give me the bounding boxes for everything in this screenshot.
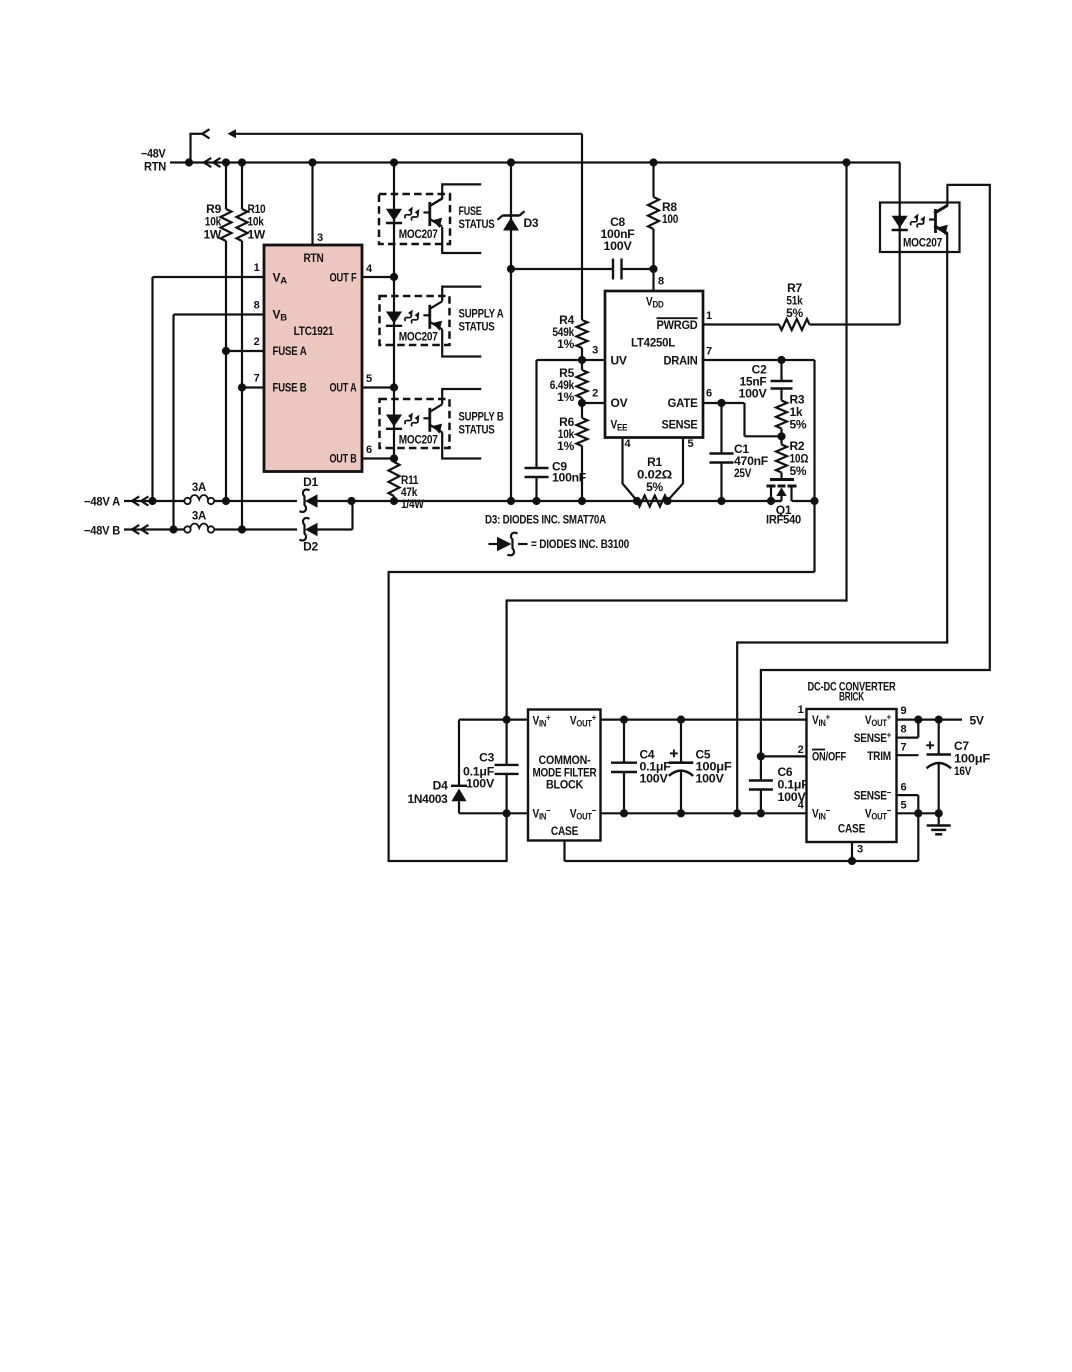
wire B joins A [318,528,353,530]
svg-text:BRICK: BRICK [839,690,864,704]
wire filter input top rail [459,718,807,720]
svg-text:1W: 1W [248,228,266,242]
svg-text:FUSE A: FUSE A [273,344,307,358]
svg-text:100: 100 [662,212,679,226]
svg-text:CASE: CASE [551,824,578,838]
svg-text:STATUS: STATUS [459,423,495,437]
opto light arrows [403,411,415,425]
svg-text:SENSE+: SENSE+ [854,730,891,745]
svg-text:GATE: GATE [668,396,698,410]
svg-text:7: 7 [706,346,712,358]
svg-text:OUT F: OUT F [330,271,357,285]
wire OV node [582,402,605,404]
IC U-LTC1921 body [264,245,362,472]
svg-text:1%: 1% [557,337,574,351]
transistor Q1 IRF540 [770,478,794,481]
capacitor C5 polarized [680,720,682,763]
opto light arrows [403,308,415,322]
fuse F2 3A [184,526,190,532]
svg-text:OV: OV [611,396,628,410]
svg-text:PWRGD: PWRGD [657,318,699,332]
svg-text:TRIM: TRIM [867,749,891,763]
opto phototransistor [428,202,431,226]
svg-text:25V: 25V [734,466,752,480]
legend diode symbol B3100 [489,543,498,545]
SUPPLY A STATUS output stubs [442,287,481,302]
svg-text:5%: 5% [790,418,807,432]
svg-text:D2: D2 [303,540,318,554]
svg-text:DRAIN: DRAIN [664,354,698,368]
sense resistor R1 [623,438,638,501]
svg-text:1%: 1% [557,390,574,404]
svg-text:5: 5 [688,438,694,450]
capacitor C6 [760,756,762,780]
FUSE STATUS output stubs [430,184,482,206]
optocoupler U5 MOC207 box [880,203,960,253]
svg-text:OUT A: OUT A [330,381,357,395]
svg-text:3: 3 [592,345,598,357]
svg-text:100nF: 100nF [552,471,586,485]
opto phototransistor [934,209,937,233]
svg-text:8: 8 [254,300,260,312]
svg-text:ON/OFF: ON/OFF [812,750,846,764]
svg-text:6: 6 [706,388,712,400]
svg-text:MOC207: MOC207 [399,229,438,241]
opto LED [386,312,402,324]
svg-text:MOC207: MOC207 [399,435,438,447]
wire B to D2 [214,528,297,530]
svg-text:−48V: −48V [141,147,166,161]
wire U5 emitter loop [737,226,947,813]
transient diode D1 [300,489,310,511]
wire filter input bottom rail [459,812,807,814]
svg-text:D1: D1 [303,475,318,489]
wire VA pin1 [153,276,265,278]
svg-text:IRF540: IRF540 [766,513,802,527]
wire UV node [582,359,605,361]
svg-text:1W: 1W [204,228,222,242]
resistor R5 [581,360,583,370]
capacitor C8 [612,259,614,280]
ground symbol [938,813,940,825]
svg-text:RTN: RTN [144,160,166,174]
wire VB pin8 [174,313,265,315]
resistor R9 [225,163,227,210]
svg-text:6: 6 [366,444,372,456]
svg-text:2: 2 [798,744,804,756]
svg-text:2: 2 [254,336,260,348]
svg-text:6: 6 [901,782,907,794]
wire OUT F pin4 [362,276,394,278]
wire RTN rail to opto U5 [899,163,901,325]
svg-text:SENSE−: SENSE− [854,788,891,803]
diode D4 1N4003 [458,720,460,786]
resistor R4 [577,320,588,348]
optocoupler U2 MOC207 dashed box [379,194,450,244]
svg-text:100V: 100V [640,772,668,786]
resistor R2 [780,436,782,444]
svg-text:5: 5 [901,800,907,812]
svg-text:5%: 5% [646,480,663,494]
svg-text:1: 1 [798,704,804,716]
svg-text:STATUS: STATUS [459,320,495,334]
capacitor C9 [537,359,583,361]
wire filter CASE [563,841,565,862]
wire drain net to filter return [389,572,815,861]
svg-text:5: 5 [366,373,372,385]
wire DRAIN [703,359,815,361]
resistor R6 [581,403,583,418]
svg-text:C3: C3 [479,751,494,765]
capacitor C1 [720,403,722,454]
wire VDD rail [511,268,613,270]
svg-text:MOC207: MOC207 [399,332,438,344]
svg-text:COMMON-: COMMON- [539,755,591,767]
wire A to D1 [214,500,297,502]
opto LED [386,415,402,427]
svg-text:FUSE B: FUSE B [273,381,307,395]
wire A after D1 [318,500,782,502]
capacitor C4 [623,720,625,763]
svg-text:LT4250L: LT4250L [631,336,675,350]
svg-text:1/4W: 1/4W [401,497,424,511]
SUPPLY B STATUS output stubs [442,389,481,404]
wire brick CASE pin3 [851,842,853,861]
wire VOUT- rail [897,812,939,814]
resistor R3 [780,389,782,401]
svg-text:3A: 3A [192,511,206,523]
wire GATE jog [703,402,745,404]
svg-text:10k: 10k [248,215,265,229]
svg-text:RTN: RTN [303,251,323,265]
wire stub up to arrow wire [189,134,191,163]
svg-text:5V: 5V [970,714,984,728]
fuse F1 3A [184,498,190,504]
svg-text:MODE FILTER: MODE FILTER [533,767,598,779]
svg-text:8: 8 [901,724,907,736]
wire from arrow to R4 divider top [235,133,583,135]
opto LED [386,209,402,221]
zener diode D3 [510,163,512,502]
svg-text:CASE: CASE [838,822,865,836]
wire OUT A pin5 [362,386,394,388]
svg-text:9: 9 [901,705,907,717]
resistor R10 [241,163,243,210]
svg-text:1N4003: 1N4003 [408,792,449,806]
svg-text:100V: 100V [466,777,494,791]
svg-text:D3: D3 [524,216,539,230]
wire FUSE A pin2 [226,350,264,352]
opto light arrows [909,213,921,227]
svg-text:5%: 5% [790,464,807,478]
opto phototransistor [428,305,431,329]
svg-text:SUPPLY A: SUPPLY A [459,307,504,321]
svg-text:OUT B: OUT B [330,452,357,466]
svg-text:STATUS: STATUS [459,217,495,231]
svg-text:16V: 16V [954,764,972,778]
svg-text:−48V A: −48V A [84,495,121,509]
connector break chevrons on RTN rail [204,158,211,167]
svg-text:1%: 1% [557,439,574,453]
svg-text:UV: UV [611,354,627,368]
wire FUSE B pin7 [242,386,264,388]
svg-text:MOC207: MOC207 [903,238,942,250]
svg-text:2: 2 [592,388,598,400]
wire RTN pin3 [311,163,313,246]
capacitor C2 [780,360,782,381]
svg-text:3A: 3A [192,482,206,494]
svg-text:SENSE: SENSE [662,418,698,432]
IC U1 LT4250L body [605,291,703,438]
capacitor C3 [506,720,508,765]
wire RTN to filter VIN+ [507,163,847,720]
arrow head pointing left on top wire [228,129,237,138]
svg-text:1: 1 [706,310,712,322]
wire U5 collector loop [761,185,990,757]
opto phototransistor [428,408,431,432]
resistor R8 [652,163,654,198]
svg-text:SUPPLY B: SUPPLY B [459,410,504,424]
svg-text:100V: 100V [604,239,632,253]
svg-text:1: 1 [254,262,260,274]
wire SENSE- tie [897,794,919,796]
wire TRIM stub [897,754,919,756]
svg-text:100V: 100V [739,387,767,401]
optocoupler U3 MOC207 dashed box [380,296,450,345]
wire ON/OFF [761,755,807,757]
svg-text:= DIODES INC. B3100: = DIODES INC. B3100 [531,537,629,551]
svg-text:BLOCK: BLOCK [546,779,584,791]
svg-text:D4: D4 [433,779,448,793]
common-mode filter block [528,710,601,841]
wire VOUT+ 5V rail [897,718,963,720]
svg-text:7: 7 [254,373,260,385]
resistor R11 [389,462,400,496]
pin VDD [652,269,654,291]
svg-text:10k: 10k [205,215,222,229]
svg-text:8: 8 [658,276,664,288]
svg-text:100V: 100V [696,772,724,786]
svg-text:7: 7 [901,742,907,754]
capacitor C7 polarized [938,720,940,755]
opto light arrows [403,206,415,220]
svg-text:−48V B: −48V B [84,524,121,538]
opto LED [892,216,908,228]
transient diode D2 [300,518,310,540]
svg-text:FUSE: FUSE [459,204,482,218]
junction dots on RTN rail [185,158,193,166]
svg-text:D3: DIODES INC. SMAT70A: D3: DIODES INC. SMAT70A [485,513,606,527]
connector break chevron top wire [202,129,209,138]
wire main RTN rail [170,161,900,163]
optocoupler U4 MOC207 dashed box [380,399,450,448]
svg-text:3: 3 [857,844,863,856]
wire opto LED chain [393,163,395,463]
svg-text:5%: 5% [786,306,803,320]
wire SENSE+ tie [897,736,919,738]
svg-text:3: 3 [317,232,323,244]
resistor R7 [703,323,779,325]
wire OUT B pin6 [362,457,394,459]
svg-text:LTC1921: LTC1921 [294,324,334,338]
